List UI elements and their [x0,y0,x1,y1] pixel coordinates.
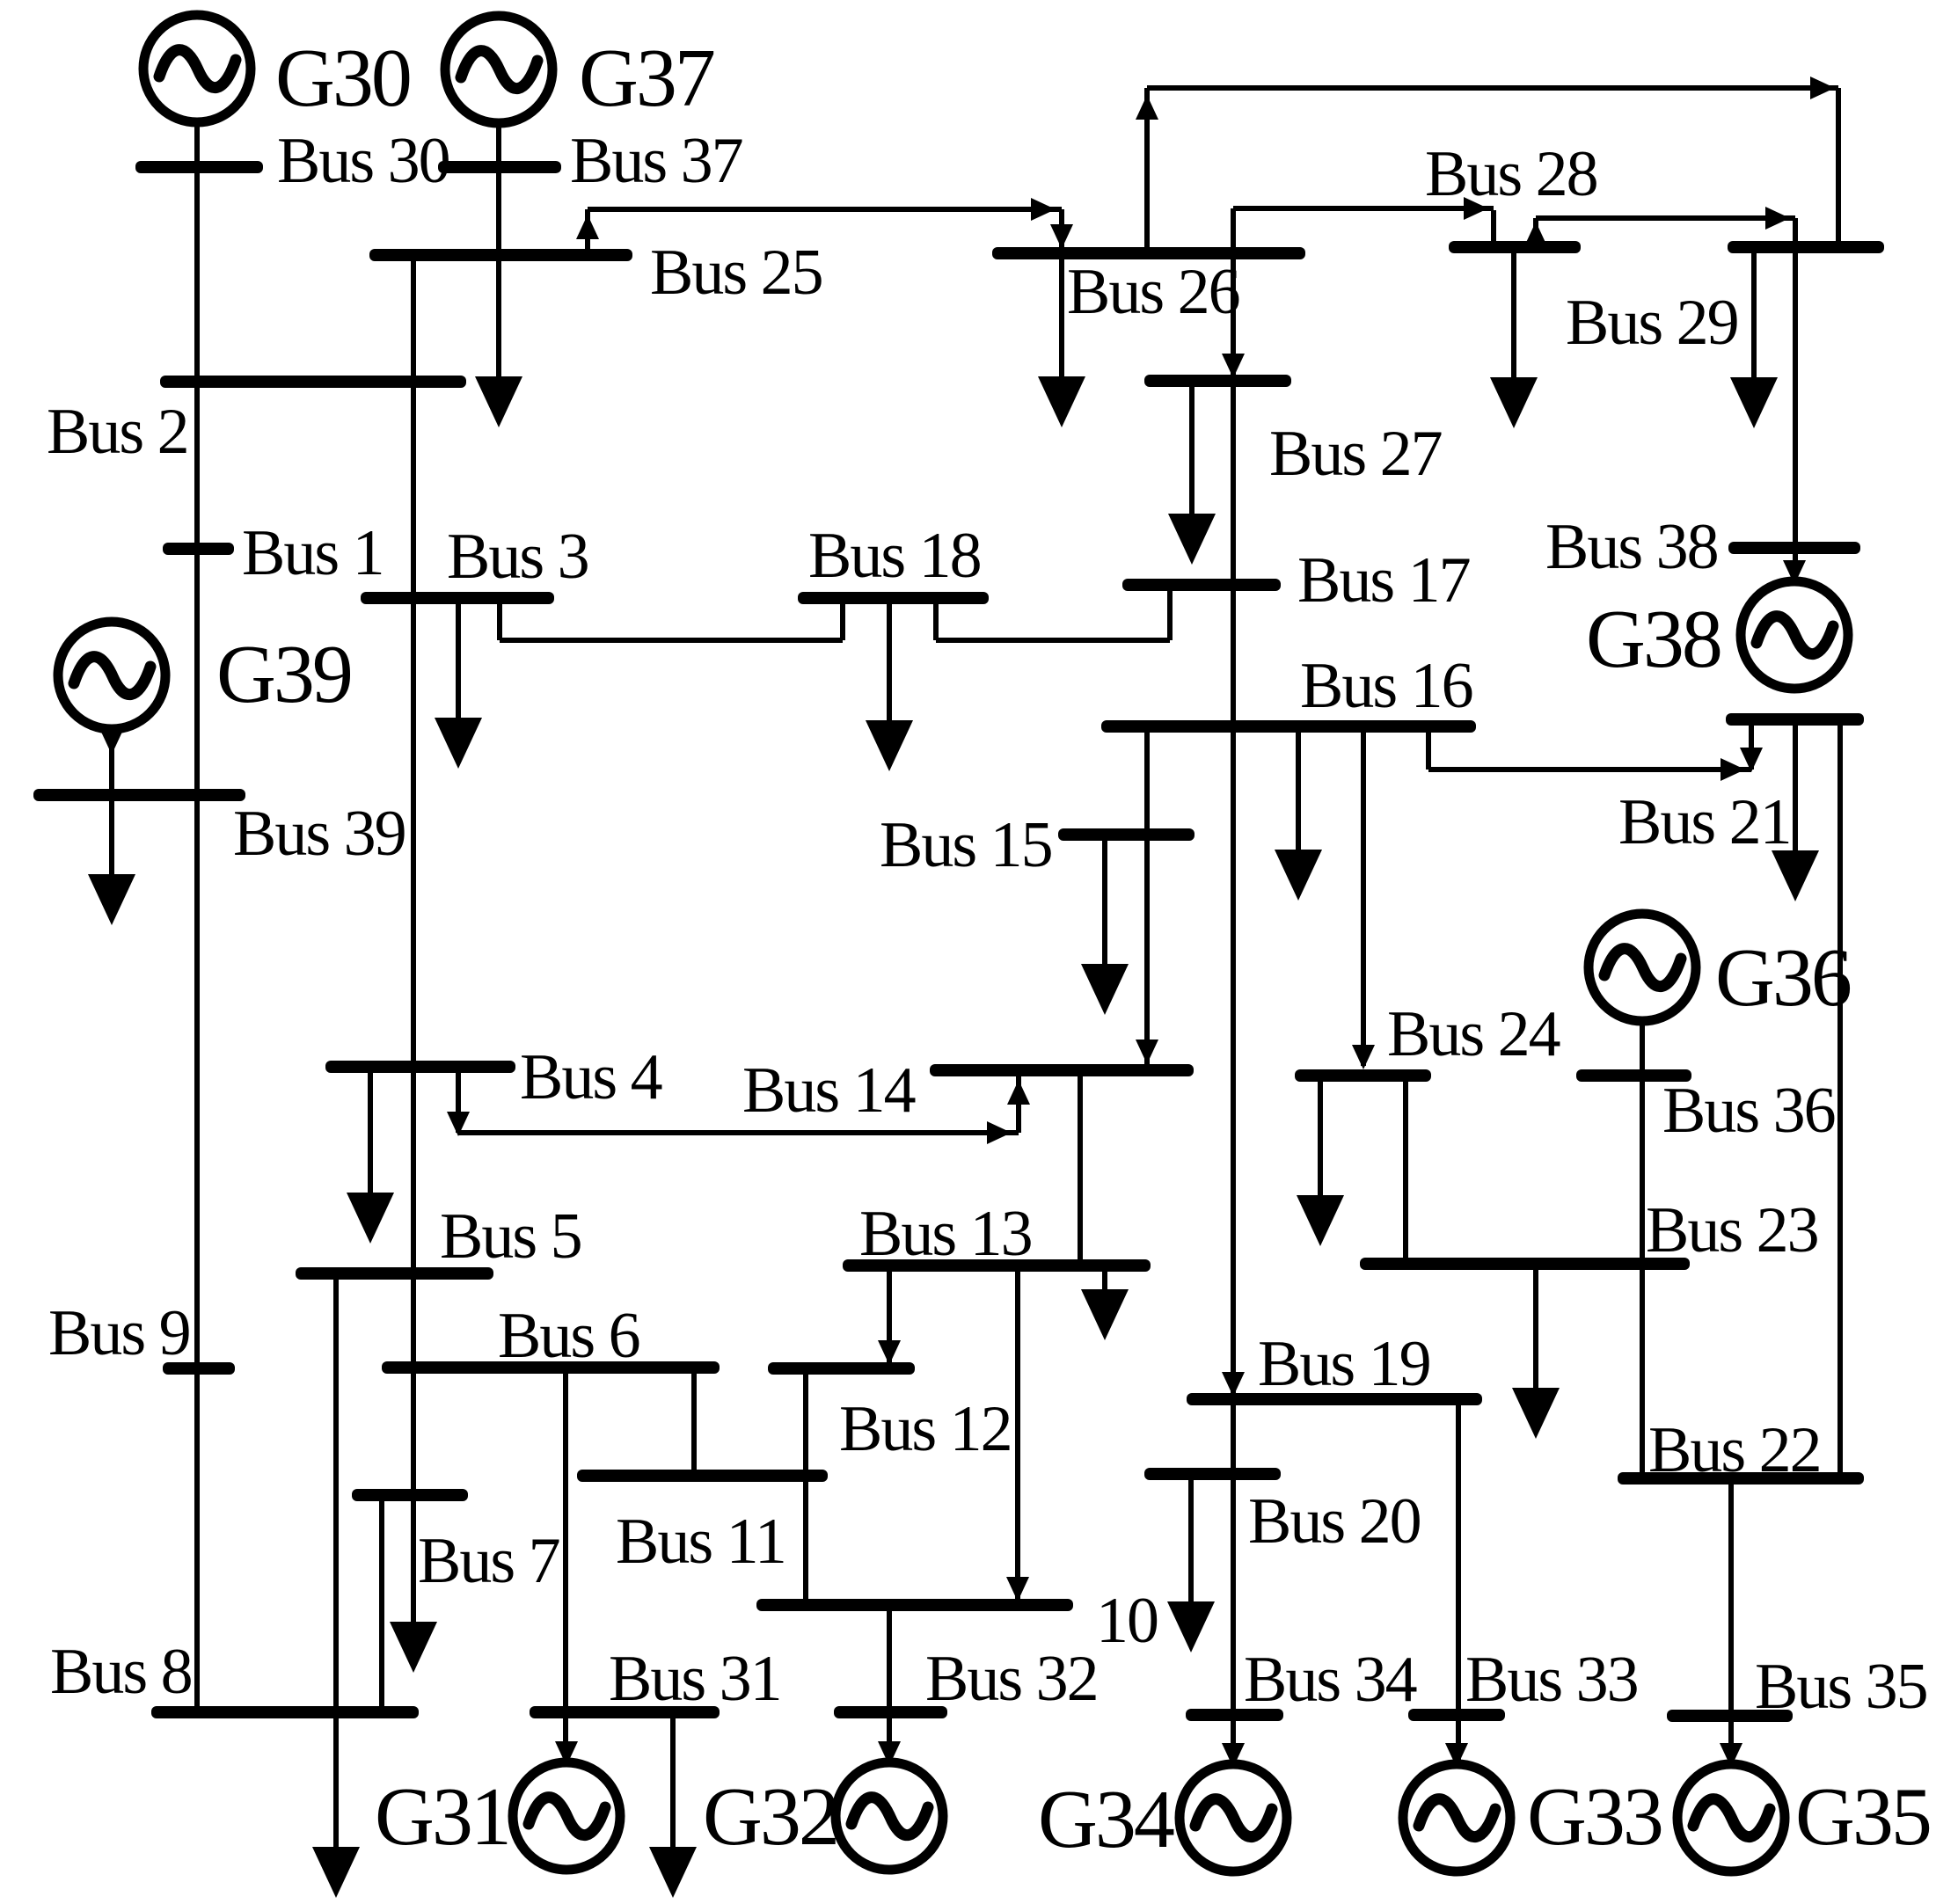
load arrow at Bus 15 [1081,840,1129,1015]
svg-text:10: 10 [1096,1585,1158,1657]
bus bar Bus 39 [33,789,245,801]
bus bar Bus 1 [163,543,234,555]
wire Bus 13 to Bus 12 (line 12-13) [887,1272,892,1362]
bus bar Bus 6 [382,1361,720,1374]
wire Bus 16 to Bus 24 (line 16-24) [1361,722,1366,1066]
generator G36 [1589,914,1696,1021]
svg-text:Bus 12: Bus 12 [839,1393,1012,1465]
svg-text:Bus 15: Bus 15 [880,809,1052,881]
arrowhead line 16-21 horizontal (right) [1721,758,1745,781]
arrowhead line 10-13 onto Bus 10 bar (down) [1006,1577,1029,1601]
load arrow at Bus 27 [1168,387,1216,565]
load arrow at Bus 7 [390,1501,437,1673]
svg-text:Bus 6: Bus 6 [498,1300,639,1372]
wire Bus 7 to Bus 8 (line 7-8) [379,1501,384,1706]
wire line 18-17 horizontal [936,638,1170,643]
svg-text:Bus 29: Bus 29 [1566,287,1738,359]
svg-text:G37: G37 [579,33,714,124]
wire line 26-29 drop to Bus 29 [1836,88,1841,243]
bus bar Bus 17 [1122,579,1281,591]
bus bar Bus 35 [1667,1710,1793,1722]
load arrow at Bus 21 [1772,726,1819,901]
generator G38 [1741,581,1848,689]
bus bar Bus 15 [1058,828,1195,841]
generator G32 [836,1762,943,1870]
load arrow at Bus 23 [1512,1270,1560,1439]
bus bar Bus 21 [1726,713,1864,726]
generator G30 [143,15,251,122]
svg-text:Bus 30: Bus 30 [277,125,449,197]
arrowhead line 12-13 onto Bus 12 bar (down) [878,1340,901,1365]
bus bar Bus 16 [1101,720,1476,733]
svg-text:Bus 1: Bus 1 [242,517,384,589]
wire line 4-14 horizontal [458,1130,1019,1135]
wire line 28-29 horizontal [1536,215,1795,221]
wire G39 to Bus 39 [109,729,114,795]
wire Bus 6 to Bus 11 (line 6-11) [691,1374,697,1470]
svg-text:Bus 34: Bus 34 [1244,1644,1417,1716]
wire Bus 25 to Bus 2 to Bus 3 to Bus 4 to Bus 5 to Bus 6 to Bus 7 (lines 2-25,2-3,3-4,4-5,5-6,6-7) [411,255,416,1495]
svg-text:Bus 21: Bus 21 [1618,786,1791,858]
wire line 25-26 horizontal [588,207,1062,212]
wire line 18-17 up to Bus 17 [1167,590,1173,640]
bus bar Bus 9 [163,1362,235,1375]
bus bar Bus 13 [843,1259,1151,1272]
svg-text:Bus 8: Bus 8 [50,1636,192,1708]
svg-text:Bus 22: Bus 22 [1648,1414,1821,1486]
arrowhead line 16-24 onto Bus 24 bar (down) [1352,1045,1375,1069]
arrowhead line 4-14 horizontal (right) [987,1121,1012,1144]
svg-text:Bus 11: Bus 11 [616,1506,785,1578]
wire line 28-29 drop to Bus 29 and through to Bus 38 and G38 (line 29-38) [1793,218,1798,580]
wire line 26-29 horizontal [1147,85,1838,91]
arrowhead at G31 terminal (down) [555,1741,578,1766]
load arrow at Bus 20 [1167,1480,1215,1652]
svg-text:Bus 18: Bus 18 [808,520,981,592]
generator G34 [1180,1764,1287,1871]
svg-text:Bus 28: Bus 28 [1425,138,1597,210]
arrowhead line 25-26 onto Bus 26 bar (down) [1050,224,1073,249]
wire Bus 26 up to line 26-29 [1144,88,1150,249]
wire Bus 12 to Bus 11 to Bus 10 (lines 11-12,10-11) [803,1375,808,1599]
svg-text:Bus 39: Bus 39 [233,798,405,870]
arrowhead at G38 terminal (down) [1783,560,1806,585]
svg-text:Bus 24: Bus 24 [1387,998,1560,1070]
svg-text:G31: G31 [375,1771,509,1863]
svg-text:Bus 33: Bus 33 [1465,1644,1638,1716]
wire line 3-18 horizontal [500,638,843,643]
wire Bus 28 up to line 28-29 [1533,218,1538,243]
svg-text:Bus 14: Bus 14 [742,1054,916,1127]
load arrow at Bus 16 [1275,728,1322,901]
wire line 3-18 up to Bus 18 [840,603,845,640]
bus bar Bus 5 [296,1267,493,1280]
wire line 26-28 corner down through Bus 26, Bus 27, Bus 17 to Bus 16 (lines 26-27,17-27,16-17) [1231,208,1236,722]
bus bar Bus 29 [1728,241,1884,253]
load arrow at Bus 26 [1038,253,1085,427]
bus bar Bus 22 [1618,1472,1864,1485]
bus bar Bus 30 [135,161,263,173]
svg-text:Bus 7: Bus 7 [418,1525,559,1597]
wire Bus 6 to Bus 31 to G31 (line 6-31) [563,1374,568,1760]
bus bar Bus 2 [160,376,466,388]
svg-text:Bus 26: Bus 26 [1067,256,1239,328]
wire Bus 16 to line 16-21 [1426,728,1431,770]
arrowhead line 16-21 at corner (down) [1740,748,1763,772]
wire Bus 18 to line 18-17 [933,603,939,640]
wire Bus 16 to Bus 15 to Bus 14 (lines 15-16,14-15) [1144,722,1150,1066]
svg-text:G32: G32 [703,1771,837,1863]
wire Bus 10 to Bus 32 to G32 (line 10-32) [887,1611,892,1760]
load arrow at Bus 4 [347,1073,394,1244]
load arrow at Bus 8 [312,1718,360,1898]
bus bar Bus 27 [1144,375,1291,387]
arrowhead line 16-19 onto Bus 19 bar (down) [1222,1372,1245,1397]
svg-text:Bus 25: Bus 25 [650,237,822,309]
svg-text:Bus 32: Bus 32 [925,1643,1098,1715]
load arrow at Bus 24 [1297,1082,1344,1246]
wire Bus 25 stub up to line 25-26 [585,209,590,249]
wire line 4-14 up to Bus 14 [1016,1076,1021,1133]
arrowhead at G33 terminal (down) [1445,1743,1468,1768]
bus bar Bus 10 [756,1599,1073,1611]
svg-text:G36: G36 [1715,932,1851,1024]
bus bar Bus 26 [992,247,1305,259]
arrowhead at G32 terminal (down) [878,1741,901,1766]
wire Bus 19 to Bus 33 to G33 (line 19-33) [1456,1405,1461,1762]
svg-text:Bus 16: Bus 16 [1300,650,1472,722]
wire line 25-26 drop to Bus 26 and load [1059,209,1064,253]
bus bar Bus 20 [1144,1468,1281,1480]
bus bar Bus 37 [438,161,561,173]
bus bar Bus 12 [768,1362,915,1375]
bus bar Bus 38 [1728,542,1860,554]
svg-text:Bus 35: Bus 35 [1755,1651,1927,1723]
generator G37 [445,16,552,123]
wire Bus 16 to Bus 19 to Bus 20 to Bus 34 to G34 (lines 16-19,19-20,20-34) [1231,722,1236,1762]
bus bar Bus 3 [361,592,554,604]
arrowhead line 25-26 at Bus 25 end (up) [576,215,599,239]
generator G31 [513,1762,620,1870]
svg-text:Bus 37: Bus 37 [570,125,742,197]
wire line 26-28 drop to Bus 28 [1491,210,1496,243]
svg-text:G34: G34 [1038,1774,1174,1865]
bus bar Bus 23 [1360,1258,1690,1270]
svg-text:Bus 23: Bus 23 [1646,1194,1818,1266]
load arrow at Bus 3 [435,603,482,769]
svg-text:Bus 36: Bus 36 [1662,1075,1835,1147]
svg-text:Bus 3: Bus 3 [447,521,588,593]
wire line 16-21 horizontal [1428,767,1751,772]
wire Bus 5 to Bus 8 (line 5-8) [333,1280,339,1712]
arrowhead at G39 terminal (down) [100,730,123,755]
wire line 26-28 horizontal [1233,206,1494,211]
load arrow at Bus 25 [475,260,522,427]
load arrow at Bus 18 [866,603,913,771]
svg-text:G35: G35 [1795,1771,1930,1863]
load arrow at Bus 28 [1490,253,1538,428]
svg-text:Bus 9: Bus 9 [48,1297,190,1369]
load arrow at Bus 31 [649,1718,697,1898]
bus bar Bus 18 [798,592,989,604]
svg-text:Bus 13: Bus 13 [859,1198,1032,1270]
bus bar Bus 33 [1408,1709,1505,1721]
svg-text:G30: G30 [275,33,410,124]
wire G30 to Bus 30 and down to Bus 8 (lines 2-30,1-2,1-39,9-39,8-9) [194,122,200,1712]
load arrow at Bus 39 [88,800,135,925]
bus bar Bus 36 [1576,1069,1691,1082]
bus bar Bus 25 [369,249,632,261]
bus bar Bus 19 [1187,1393,1482,1405]
svg-text:Bus 31: Bus 31 [609,1643,781,1715]
load arrow at Bus 29 [1730,253,1778,428]
svg-text:G38: G38 [1586,594,1721,685]
arrowhead line 28-29 at Bus 28 end (up) [1524,222,1547,246]
wire Bus 36 to Bus 23 to Bus 22 (lines 23-36,22-23) [1640,1076,1645,1478]
bus bar Bus 11 [577,1470,828,1482]
generator G39 [58,622,165,729]
arrowhead line 26-29 at Bus 29 end (right) [1810,77,1835,99]
arrowhead line 26-27 onto Bus 27 bar (down) [1222,354,1245,378]
bus bar Bus 34 [1186,1709,1283,1721]
arrowhead line 26-29 at Bus 26 stub top (up) [1136,95,1158,120]
svg-text:Bus 4: Bus 4 [520,1041,662,1113]
bus bar Bus 14 [930,1064,1194,1076]
arrowhead line 14-15 onto Bus 14 bar (down) [1136,1040,1158,1064]
svg-text:Bus 20: Bus 20 [1248,1485,1421,1557]
wire Bus 14 to Bus 13 (line 13-14) [1078,1076,1083,1259]
wire line 16-21 up to Bus 21 [1749,726,1754,770]
bus bar Bus 24 [1295,1069,1431,1082]
svg-text:Bus 19: Bus 19 [1258,1328,1430,1400]
arrowhead line 28-29 at Bus 29 end (right) [1765,207,1790,230]
arrowhead line 26-28 at Bus 28 end (right) [1464,197,1488,220]
bus bar Bus 7 [352,1489,468,1501]
arrowhead line 4-14 at Bus 4 drop (down) [447,1112,470,1136]
svg-text:G39: G39 [216,629,351,720]
arrowhead at G35 terminal (down) [1720,1743,1742,1768]
svg-text:Bus 17: Bus 17 [1297,544,1470,616]
svg-text:G33: G33 [1527,1771,1662,1863]
bus bar Bus 8 [151,1706,419,1718]
wire Bus 4 to line 4-14 [456,1073,461,1133]
bus bar Bus 31 [530,1706,720,1718]
arrowhead line 4-14 up to Bus 14 (up) [1007,1080,1030,1105]
svg-text:Bus 27: Bus 27 [1269,418,1442,490]
generator G33 [1403,1764,1510,1871]
bus bar Bus 4 [325,1061,515,1073]
wire Bus 21 to Bus 22 (line 21-22) [1837,726,1843,1478]
wire Bus 13 to Bus 10 (line 10-13) [1015,1272,1020,1599]
svg-text:Bus 5: Bus 5 [440,1200,581,1273]
bus bar Bus 32 [834,1706,947,1718]
wire G36 to Bus 36 [1640,1020,1645,1076]
load arrow at Bus 13 [1081,1272,1129,1340]
arrowhead at G34 terminal (down) [1222,1743,1245,1768]
svg-text:Bus 38: Bus 38 [1545,511,1718,583]
wire Bus 24 to Bus 23 (line 23-24) [1403,1082,1408,1258]
wire Bus 22 to Bus 35 to G35 (line 22-35) [1728,1478,1734,1762]
wire Bus 3 to line 3-18 [497,603,502,640]
wire G37 to Bus 37 to Bus 25 (line 25-37) [496,123,501,255]
generator G35 [1677,1764,1785,1871]
arrowhead line 25-26 at Bus 26 end (right) [1031,198,1056,221]
svg-text:Bus 2: Bus 2 [47,396,188,468]
bus bar Bus 28 [1449,241,1581,253]
